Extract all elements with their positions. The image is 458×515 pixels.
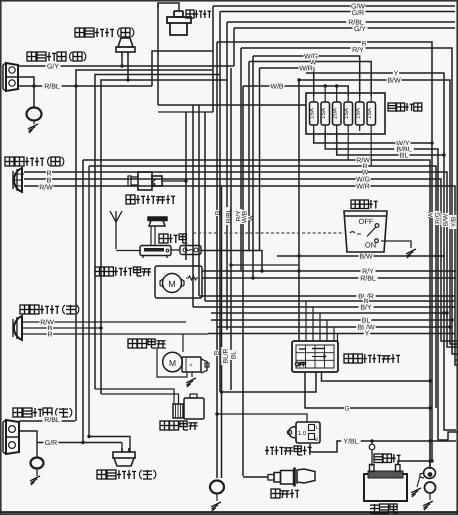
wire wiper feed <box>182 334 184 353</box>
wire left mid verticals <box>158 105 213 307</box>
wire switch top feeds <box>306 301 338 341</box>
wire connector drop <box>429 441 431 469</box>
wire bundle W vertical <box>246 62 254 251</box>
svg-text:15A: 15A <box>309 108 316 119</box>
brake switch symbol <box>128 172 188 190</box>
wire side left A <box>121 443 123 453</box>
wire W bus <box>24 168 457 347</box>
wire right corner battery <box>438 432 457 440</box>
svg-text:15A: 15A <box>320 108 327 119</box>
radio fuse holder <box>171 246 201 255</box>
svg-text:R/G: R/G <box>434 212 441 224</box>
wire side lamp B <box>127 56 129 80</box>
wire Y/BL <box>310 437 456 452</box>
lamp side turn left <box>113 448 135 466</box>
wire B/BL <box>325 131 438 440</box>
svg-text:M: M <box>169 358 176 368</box>
wire R/Y top bus <box>241 46 457 355</box>
label vertical wire B/W <box>441 213 449 227</box>
room light switch contacts <box>350 224 379 243</box>
svg-text:R/BL: R/BL <box>44 416 60 424</box>
label 收音机 <box>159 234 187 243</box>
bulb sidemarker right <box>27 108 42 125</box>
radio unit <box>140 246 171 259</box>
label 暖风风扇电机 <box>95 267 151 276</box>
svg-text:15A: 15A <box>366 108 373 119</box>
svg-text:20A: 20A <box>332 108 339 119</box>
svg-text:Y: Y <box>365 331 370 338</box>
wire bundle W/B vertical <box>240 86 248 476</box>
wiper motor symbol <box>163 352 209 373</box>
svg-text:BL/R: BL/R <box>222 348 229 363</box>
cigarette lighter symbol <box>268 468 315 487</box>
wire bundle G/Y drop <box>233 28 235 66</box>
connector ring terminal <box>420 468 435 479</box>
wire B mid bus <box>205 297 455 306</box>
wire BL/R mid bus <box>199 292 455 301</box>
wire left loop vertical <box>157 3 159 105</box>
wire W/B top <box>243 82 348 96</box>
wire W/G bus <box>24 175 457 341</box>
svg-text:G: G <box>344 405 349 412</box>
wire speaker to radio <box>151 226 155 246</box>
label 闪光继电器 <box>265 446 312 455</box>
heater motor resistor <box>186 276 199 280</box>
wire R/W bus <box>83 156 432 469</box>
wire W/Y <box>314 131 434 148</box>
fuse F2 15A <box>320 96 329 131</box>
bulb sidemarker left <box>31 458 44 477</box>
label 洗涤电机 <box>160 421 198 430</box>
bulb component bottom right <box>425 482 436 500</box>
heater fan motor box <box>155 266 202 298</box>
wire left vertical R/BL <box>74 70 213 421</box>
svg-text:G/Y: G/Y <box>47 63 59 71</box>
fuse F5 15A <box>355 96 364 131</box>
lamp front combo right <box>3 63 18 91</box>
wire Y feed to switch <box>297 80 300 341</box>
label 点烟器 <box>271 489 299 498</box>
wire left vertical 4 <box>95 75 220 390</box>
label 暖风风扇开关 <box>344 354 400 363</box>
heater fan motor M <box>160 274 184 293</box>
wire wiper loop <box>157 348 187 377</box>
speaker <box>148 217 167 226</box>
wire BL mid bus <box>211 316 452 325</box>
svg-text:R/W: R/W <box>39 184 53 192</box>
svg-text:OFF: OFF <box>295 362 307 368</box>
room light ON <box>365 241 376 250</box>
ground under bulb right <box>28 124 38 133</box>
wire R/Y mid bus <box>202 267 456 276</box>
svg-text:Y/BL: Y/BL <box>343 438 358 446</box>
wire room light dashed feed <box>193 232 344 234</box>
wire R/BL mid bus <box>202 274 456 283</box>
label 侧转向灯(左) <box>97 470 156 479</box>
wire W/G top <box>253 52 360 96</box>
wire switch bottom out 1 <box>220 372 316 394</box>
wire washer feeds <box>95 389 179 404</box>
wire headlight R stub <box>22 173 24 175</box>
wire B/W mid bus <box>277 252 445 261</box>
lamp side turn right <box>116 38 135 56</box>
svg-text:G/R: G/R <box>45 439 57 447</box>
wire Y mid bus <box>208 329 455 338</box>
wire headlight left B <box>22 324 101 333</box>
washer motor <box>173 394 204 419</box>
svg-text:15A: 15A <box>343 108 350 119</box>
fuse box 保险丝盒 outline <box>306 93 385 134</box>
wire flasher feed G <box>305 372 430 412</box>
wire B top bus <box>217 40 434 463</box>
wire corner y51 <box>152 51 213 260</box>
wire bundle companion vertical <box>221 186 223 478</box>
wire BL/W mid bus <box>217 323 450 332</box>
wire W top <box>249 58 371 96</box>
battery 蓄电池 <box>364 465 407 502</box>
svg-text:W/R: W/R <box>299 65 313 73</box>
ground room light <box>406 249 416 258</box>
svg-text:BL: BL <box>230 351 237 359</box>
label 前照灯(右) <box>5 157 64 166</box>
label 气节阀 <box>186 10 211 18</box>
headlight right symbol <box>12 168 22 192</box>
wire side left B <box>89 166 130 452</box>
throttle valve symbol <box>167 11 191 35</box>
fuse F4 15A <box>343 96 352 131</box>
svg-text:+: + <box>189 363 193 369</box>
label 前组合灯(左) <box>13 408 72 417</box>
wire throttle feed <box>158 3 179 11</box>
wire G/R left lamp <box>37 435 122 447</box>
label 侧转向灯(右) <box>75 28 134 37</box>
fuse F1 15A <box>309 96 318 131</box>
wire lamp to bulb <box>18 77 36 108</box>
room light OFF <box>359 217 374 226</box>
wire fuse drop R/W <box>347 131 349 160</box>
wire W/R bus <box>24 182 457 365</box>
svg-text:R/BL: R/BL <box>360 275 376 283</box>
wire switch bottom out 2 <box>322 372 431 381</box>
svg-text:Y/B: Y/B <box>450 217 457 227</box>
wire R/BL left lamp <box>19 416 75 425</box>
label vertical wire W <box>426 211 434 218</box>
flasher relay box <box>287 422 320 443</box>
wire R/BL top bus <box>227 18 455 27</box>
wire flasher top stub <box>215 412 307 422</box>
svg-text:15A: 15A <box>355 108 362 119</box>
lamp front combo left <box>3 420 19 454</box>
svg-text:BL: BL <box>400 153 409 160</box>
svg-text:1.0: 1.0 <box>298 430 307 437</box>
wire headlight left R <box>22 330 208 339</box>
label 保险丝 <box>374 454 401 463</box>
wire G/R bus <box>220 9 455 18</box>
label 前照灯(左) <box>20 305 79 314</box>
wire stub y265 <box>229 263 299 266</box>
wire side lamp A <box>120 56 123 68</box>
wire Y top <box>306 69 456 430</box>
wire BL below fusebox <box>337 131 444 160</box>
room light unit <box>344 211 387 252</box>
label 刮水电机 <box>128 339 166 348</box>
svg-text:W/B: W/B <box>270 83 284 91</box>
wire radio fuse out <box>201 251 262 272</box>
wire G/Y lamp <box>18 62 234 71</box>
wire left vertical 5 <box>99 78 227 394</box>
svg-text:B/W: B/W <box>359 253 373 261</box>
label 室内灯 <box>351 200 378 209</box>
svg-text:OFF: OFF <box>359 217 374 226</box>
wire left loop horizontal <box>158 104 306 106</box>
wire G/Y top bus <box>234 25 455 34</box>
label 前组合灯(右) <box>27 52 86 61</box>
wire W/R top <box>260 64 314 251</box>
svg-text:L: L <box>316 425 319 431</box>
wire bundle R/Y vertical <box>234 48 242 271</box>
wire fuse drop R <box>370 131 372 166</box>
wire B/Y mid bus <box>193 303 455 312</box>
wire R/BL lamp <box>18 82 152 91</box>
ground wiper <box>186 372 196 387</box>
svg-text:B/W: B/W <box>442 213 449 226</box>
fuse F6 15A <box>366 96 375 131</box>
wire bundle R/BL vertical <box>221 22 232 365</box>
svg-text:G/Y: G/Y <box>354 25 366 33</box>
label 蓄电池 <box>370 504 398 513</box>
wire bundle BL vertical <box>229 68 237 390</box>
antenna <box>110 211 122 249</box>
wire stub y360 <box>455 359 457 361</box>
label 保险丝盒 <box>388 103 422 111</box>
svg-text:M: M <box>168 279 176 289</box>
wire lamp left to bulb <box>19 431 37 458</box>
svg-text:R: R <box>47 332 52 339</box>
wire headlight left R/W <box>22 318 186 327</box>
wire Y2 mid bus <box>211 312 447 314</box>
ground grommet <box>211 502 221 511</box>
wire bundle W/G drop <box>252 56 254 278</box>
wire battery right <box>398 461 434 465</box>
ground ring terminal <box>411 476 421 497</box>
fuse inline <box>369 441 375 466</box>
label vertical wire Y/B <box>449 215 457 229</box>
wire fuse feeds up <box>325 86 337 96</box>
headlight left symbol <box>13 316 22 340</box>
svg-text:W/R: W/R <box>356 183 370 191</box>
wire room light ON out <box>381 241 411 248</box>
wire B/W top <box>297 76 457 344</box>
heater fan switch box <box>292 341 338 372</box>
fuse F3 20A <box>332 96 341 131</box>
ground bulb bottom right <box>423 501 433 510</box>
wire antenna to radio <box>116 250 141 252</box>
svg-text:B: B <box>213 351 220 355</box>
wire left vertical 2 <box>82 160 84 443</box>
wire R bus <box>89 162 436 408</box>
grommet circle bottom <box>210 481 224 502</box>
wire bundle B vertical <box>212 42 221 478</box>
label 制动灯开关 <box>126 195 175 204</box>
wire G/W bus <box>213 2 455 11</box>
svg-text:R/BL: R/BL <box>44 83 60 91</box>
wire bundle G/R drop <box>219 12 221 393</box>
wire bundle x213 G/W drop <box>212 6 214 112</box>
ground under bulb left <box>30 476 40 485</box>
svg-text:R/Y: R/Y <box>352 46 364 54</box>
svg-text:G/R: G/R <box>352 9 364 17</box>
svg-text:B/Y: B/Y <box>360 304 372 312</box>
svg-text:B/W: B/W <box>387 77 401 85</box>
wire lighter feed <box>243 476 268 478</box>
label vertical wire R/G <box>433 211 441 225</box>
